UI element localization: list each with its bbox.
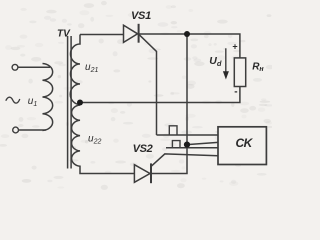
gate pulse symbol P2 [172,141,180,148]
svg-text:VS2: VS2 [133,143,153,155]
svg-text:VS1: VS1 [131,10,151,22]
svg-text:+: + [232,41,237,51]
input terminal (top) [12,64,18,70]
wire: top terminal to primary winding [18,66,50,68]
load resistor Rn [234,58,245,87]
wire: bottom terminal to primary winding [19,129,47,131]
control block CK [218,127,266,165]
wire: load bottom to centre tap [80,87,240,103]
node: common cathode junction [152,34,187,174]
arrow Ud [225,48,227,72]
control line L2 : junction to CK [187,142,218,144]
arrowhead of Ud [223,71,229,79]
control line L3 : pulse line to CK [166,147,218,149]
thyristor VS2 [134,165,150,183]
junction dot (top rail) [184,31,190,37]
input terminal (bottom) [13,127,19,133]
transformer core [67,36,69,169]
sine symbol of u1 [6,97,20,103]
control line L1 : VS1 gate to CK [157,134,219,136]
svg-text:TV: TV [57,29,71,40]
wire: top rail u21 to VS1 anode [80,34,124,36]
secondary winding u21 [70,35,80,105]
svg-text:CK: CK [236,136,254,150]
svg-text:-: - [234,87,237,98]
control line L4 : VS2 gate to CK [151,154,218,166]
VS1 gate lead [139,35,156,135]
gate pulse symbol P1 [169,126,177,135]
wire: VS1 cathode to load corner [140,34,240,58]
paper background [0,0,272,190]
junction dot (gate common) [184,142,190,148]
secondary winding u22 [72,105,135,174]
transformer TV primary winding u1 [43,64,53,131]
junction dot (centre tap) [77,100,83,106]
thyristor VS1 [124,25,138,42]
